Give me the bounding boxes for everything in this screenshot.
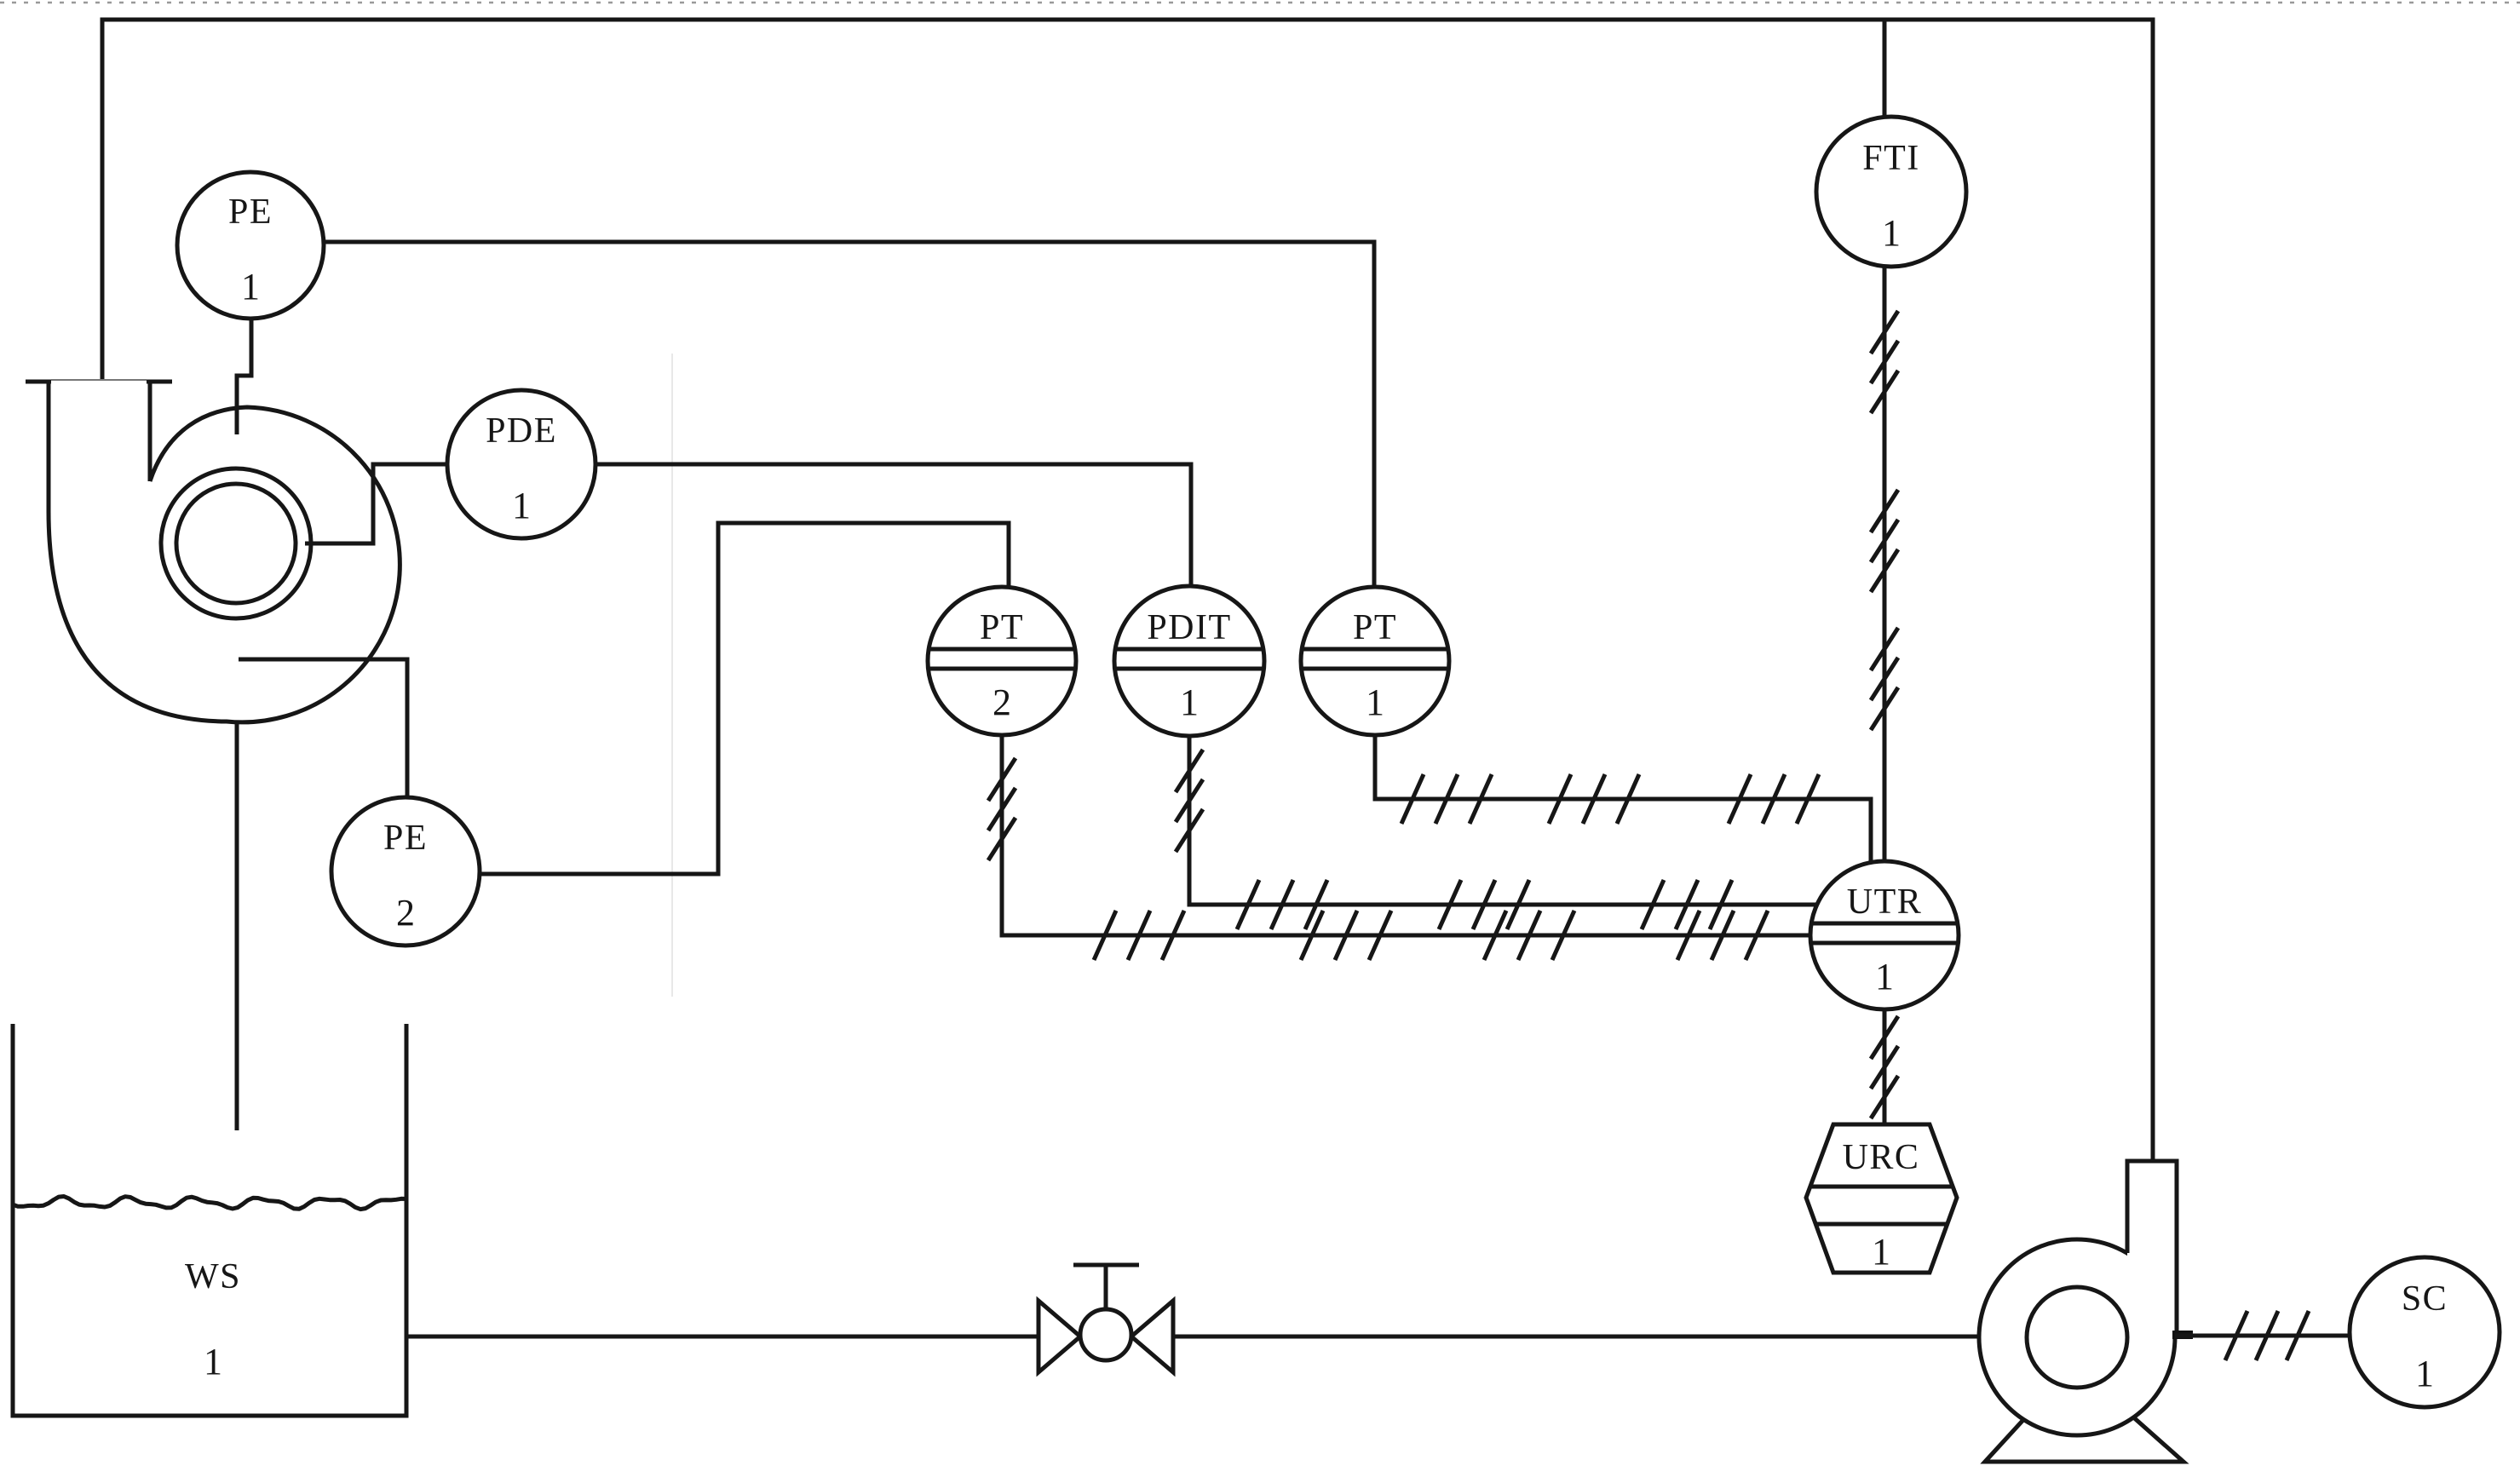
slash group PDIT-UTR 2 xyxy=(1439,880,1529,929)
svg-text:1: 1 xyxy=(241,266,260,308)
svg-text:URC: URC xyxy=(1843,1138,1920,1177)
svg-text:PT: PT xyxy=(1353,608,1397,647)
junction blob xyxy=(2172,1331,2193,1339)
tank water level xyxy=(13,1197,406,1210)
slash group PDIT-UTR 3 xyxy=(1642,880,1732,929)
signal: FTI to UTR xyxy=(1883,267,1887,861)
pump P1 impeller rings xyxy=(161,468,311,618)
pump P2 casing xyxy=(1979,1239,2175,1435)
instrument PDIT1 xyxy=(1114,586,1264,736)
slash group PT2 drop xyxy=(988,758,1015,860)
svg-text:FTI: FTI xyxy=(1862,139,1920,178)
pump P2 discharge nozzle xyxy=(2127,1161,2177,1337)
instrument URC1 (hexagon) xyxy=(1806,1124,1957,1273)
slash group PT1-UTR 2 xyxy=(1549,774,1639,824)
pump P1 inlet flange xyxy=(26,380,172,382)
svg-text:PE: PE xyxy=(228,193,273,232)
svg-text:2: 2 xyxy=(396,892,415,934)
instrument PE1 xyxy=(177,172,324,319)
pump P1 inlet pipe right wall xyxy=(148,382,152,481)
slash group PT2-UTR 4 xyxy=(1677,911,1768,960)
svg-text:PE: PE xyxy=(383,819,428,858)
instrument PT2 xyxy=(928,587,1076,735)
slash group PT1-UTR 1 xyxy=(1401,774,1492,824)
signal: UTR to URC xyxy=(1883,1009,1887,1124)
slash group PT1-UTR 3 xyxy=(1729,774,1819,824)
tank WS1 xyxy=(13,1024,406,1416)
wire: PDE to PDIT drop xyxy=(595,464,1191,587)
signal: PT2 to UTR xyxy=(1002,735,1810,935)
svg-text:1: 1 xyxy=(2415,1353,2434,1394)
signal: PDIT to UTR xyxy=(1189,735,1817,905)
pump P1 volute casing xyxy=(49,382,400,722)
instrument PE2 xyxy=(331,797,480,946)
slash group P2-SC xyxy=(2225,1311,2309,1360)
valve V1 xyxy=(1038,1265,1173,1372)
slash group PT2-UTR 3 xyxy=(1484,911,1574,960)
svg-text:1: 1 xyxy=(1180,681,1199,723)
slash group PDIT-UTR 1 xyxy=(1237,880,1327,929)
instrument UTR1 xyxy=(1810,861,1959,1009)
instrument PT1 xyxy=(1301,587,1449,735)
svg-text:PDE: PDE xyxy=(486,411,557,451)
instrument PDE1 xyxy=(447,390,595,538)
slash group PT2-UTR 1 xyxy=(1094,911,1184,960)
pump P2 impeller xyxy=(2027,1287,2127,1388)
svg-text:1: 1 xyxy=(1875,956,1894,997)
pump P2 base xyxy=(1985,1401,2183,1462)
slash group FTI-UTR 3 xyxy=(1871,628,1898,730)
svg-text:1: 1 xyxy=(204,1341,222,1382)
svg-text:1: 1 xyxy=(1872,1231,1890,1273)
pump P1 discharge tap to PE2 xyxy=(239,659,407,797)
svg-text:SC: SC xyxy=(2402,1279,2448,1319)
svg-text:1: 1 xyxy=(1366,681,1384,723)
pipe: valve to pump P2 xyxy=(1173,1335,1979,1339)
slash group PDIT drop xyxy=(1176,750,1203,852)
faint dotted border top xyxy=(0,2,2520,4)
PE1 sensor tap into pump xyxy=(237,319,251,434)
instrument FTI1 xyxy=(1816,117,1966,267)
pump P1 suction dip tube into tank xyxy=(235,721,239,1130)
svg-text:PT: PT xyxy=(980,608,1024,647)
slash group FTI-UTR 1 xyxy=(1871,311,1898,413)
svg-text:1: 1 xyxy=(1882,212,1901,254)
pump P1 casing tap to PDE xyxy=(305,464,447,543)
svg-text:UTR: UTR xyxy=(1847,882,1923,922)
signal: PT1 to UTR xyxy=(1375,735,1871,863)
slash group PT2-UTR 2 xyxy=(1301,911,1391,960)
svg-text:PDIT: PDIT xyxy=(1147,608,1231,647)
wire: top header line xyxy=(102,20,2153,1161)
signal: pump P2 to SC xyxy=(2175,1334,2350,1338)
slash group FTI-UTR 2 xyxy=(1871,490,1898,592)
wire: PE2 to PT2 drop xyxy=(480,523,1009,874)
wire: PE1 to PT1 drop xyxy=(325,242,1374,587)
wire: FTI branch from top line xyxy=(1883,20,1887,119)
faint scan artifact line xyxy=(671,354,673,997)
instrument SC1 xyxy=(2350,1257,2500,1407)
svg-text:2: 2 xyxy=(992,681,1011,723)
slash group UTR-URC xyxy=(1871,1016,1898,1118)
pipe: tank to valve xyxy=(406,1335,1038,1339)
svg-text:1: 1 xyxy=(512,485,531,526)
svg-text:WS: WS xyxy=(185,1257,241,1296)
